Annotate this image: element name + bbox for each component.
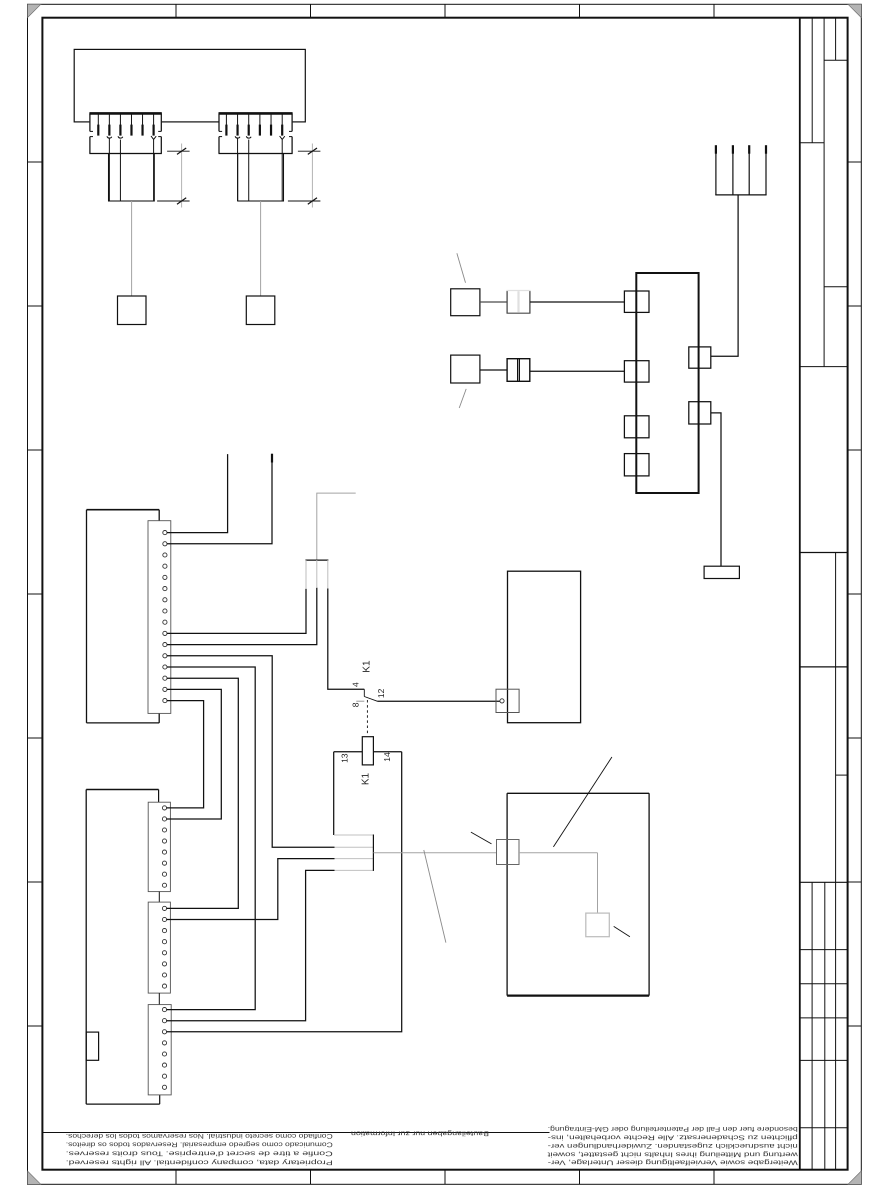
title block column line v6 bottom [824,882,826,1169]
splice block X2 [246,296,274,325]
terminal strip X10 (16 pins) [148,521,171,714]
notes area top border [42,1132,549,1134]
terminal strip X11.C (8 pins) [148,902,170,993]
title block divider h 1128 [800,1127,848,1129]
wire screen to contact K1 [328,589,365,690]
wire A2 stub up [167,454,272,544]
cable sleeve X1 [109,154,155,202]
svg-text:Comunicado como segredo empres: Comunicado como segredo empresarial. Res… [66,1141,333,1148]
wire D2 to cable bundle [166,870,334,1020]
bundle gray wire 3 [335,858,374,860]
wire coil 13 down [333,752,335,835]
earth bar terminal [704,566,739,578]
title block divider h 1018 [800,1017,848,1019]
corner triangle top-right [848,4,861,17]
component outline box top [74,49,305,122]
sensor B2 box [451,355,480,383]
screen drop gray 1 [305,560,307,589]
corner triangle bottom-right [848,1171,861,1184]
dimension lines at X1 [157,144,190,208]
title block column line v5 bottom [811,882,813,1169]
control unit block A1 [636,273,698,493]
frame ticks left edge [28,162,43,1026]
wire A16 to B1 [166,701,203,808]
wire X5 to block terminal [711,195,738,356]
title block left boundary [799,18,801,1170]
bundle bar [372,835,374,871]
housing X11 side tab [86,1032,98,1060]
cable sleeve X2 [238,154,284,202]
title block column line v2 [823,18,825,367]
svg-text:Bauteilangaben nur zur Informa: Bauteilangaben nur zur Information [351,1130,489,1137]
gray leader near bundle [424,850,446,943]
sensor B1 box [451,289,480,316]
long gray wire bundle to valve box [373,852,496,854]
connector plug X2 (right, 6 pins) [219,112,293,201]
title block divider h 143 [800,142,824,144]
terminal strip X11.D (8 pins) [148,1005,171,1095]
wire contact 12 to module pin [377,700,500,702]
title block divider h 667 [800,666,848,668]
pin circle on A2 terminal [500,699,504,703]
relay contact K1 pivot stub [363,689,365,696]
strip C-D link [158,993,160,1005]
terminal strip X11.B (8 pins) [148,802,170,891]
terminal 5 on A1 right [689,347,711,368]
title block divider h 287 [824,286,848,288]
svg-text:Weitergabe sowie Vervielfaelti: Weitergabe sowie Vervielfaeltigung diese… [548,1159,798,1166]
terminal 4 on A1 [624,454,649,476]
svg-text:K1: K1 [362,660,373,673]
terminal 6 on A1 right [689,402,711,424]
coil box top edge left [334,751,363,753]
terminal 2 on A1 [624,361,649,382]
svg-text:Confiado como secreto industri: Confiado como secreto industrial. Nos re… [66,1132,333,1139]
title block divider h 775 [836,774,848,776]
relay contact K1 throw 8 stub [356,700,364,702]
connector housing X11 outer [86,790,160,1105]
terminal strip X10 pins [163,531,167,703]
title block divider h 984 [800,983,848,985]
wire (screen drain X1 to splice) [131,201,133,296]
title block divider h 552 [800,552,848,554]
wire A12 to cable bundle [167,656,335,847]
bundle gray wire 4 [335,869,374,871]
svg-text:pflichten zu Schadenersatz. Al: pflichten zu Schadenersatz. Alle Rechte … [548,1134,798,1141]
svg-text:nicht ausdruecklich zugestande: nicht ausdruecklich zugestanden. Zuwider… [548,1142,798,1149]
bundle gray wire 2 [335,846,374,848]
inline filter F2 [507,359,530,382]
gray wire through A3 [519,852,598,854]
title block divider h 1060 [800,1059,848,1061]
terminal 3 on A1 [624,416,649,438]
wire D3 to relay coil 14 [166,752,401,1032]
gray wire down to solenoid [597,853,599,913]
inline filter F2 center lines [517,359,519,382]
terminal on A2 [496,689,519,712]
svg-text:wertung und Mitteilung ihres I: wertung und Mitteilung ihres Inhalts nic… [548,1150,800,1157]
svg-text:K1: K1 [361,772,372,785]
svg-text:8: 8 [350,702,360,707]
wire terminal6 to earth bar [711,413,721,566]
svg-text:Proprietary data, company conf: Proprietary data, company confidential. … [66,1158,333,1165]
leader line at sensor B2 [459,389,466,408]
svg-text:14: 14 [382,752,392,762]
device box A2 [508,571,581,723]
long leader line at A3 [553,757,612,847]
dimension lines at X2 [288,144,321,208]
title block divider h 882 [800,881,848,883]
wire A1 stub up [167,454,228,532]
screen feed wire (gray) [317,493,356,560]
corner triangle top-left [28,4,41,17]
wire filter F2 to terminal 2 [530,370,624,372]
wire A14 to C1 [166,678,238,908]
leader at solenoid [614,926,630,936]
title block column line v1 top [811,18,813,143]
leader to A3 terminal [471,832,492,844]
connector X5 (4 pins) [715,145,766,195]
title block divider h 367 [800,366,848,368]
bundle gray wire 1 [334,834,373,836]
coil box top edge right [373,751,401,753]
contact-coil mechanical link (dashed) [366,700,368,736]
wire A15 to B2 [166,689,221,819]
relay contact K1 blade [364,697,377,702]
inline filter F1 (faded top) [507,291,531,314]
notes text german block (rotated 180) [548,1125,800,1166]
wire A11 to screen bar [167,588,317,645]
frame ticks top edge [176,4,714,17]
terminal on A3 left edge [497,840,520,865]
relay coil K1 [362,737,373,765]
wire filter F1 to terminal 1 [530,301,624,303]
wire (screen drain X2 to splice) [260,201,262,296]
strip B-C link [158,892,160,903]
frame ticks right edge [848,162,862,1026]
svg-text:besondere fuer den Fall der Pa: besondere fuer den Fall der Patenterteil… [548,1125,798,1132]
title block divider h 950 [800,949,848,951]
strips B C D pins [162,806,166,1090]
title block column line v3 top [835,18,837,61]
connector housing X10 outer [87,510,160,723]
wire A10 to screen bar [167,589,306,634]
title block column line v4 mid [835,553,837,1170]
splice block X1 [118,296,147,325]
terminal 1 on A1 [624,291,649,312]
svg-text:Confie a titre de secret d’ent: Confie a titre de secret d’entreprise. T… [66,1150,333,1157]
corner triangle bottom-left [28,1171,41,1184]
valve unit box A3 [507,793,649,995]
leader line at sensor B1 [457,253,466,282]
wire C2 to cable bundle [166,859,334,920]
title block divider h 60 [824,59,848,61]
pin tip at A2 stub [271,454,273,463]
screen bar [305,559,328,561]
connector plug X1 (left, 6 pins) [89,112,161,201]
wire sensor B2 to filter F2 [480,369,507,371]
solenoid square in A3 [586,913,610,937]
notes text english block (rotated 180) [66,1132,333,1166]
screen drop gray 3 [327,560,329,588]
svg-text:13: 13 [340,753,350,763]
frame ticks bottom edge [176,1170,714,1185]
wire sensor B1 to filter [480,301,507,303]
wire A13 to D1 [166,667,255,1010]
svg-text:12: 12 [376,688,386,698]
svg-text:4: 4 [350,682,360,687]
screen drop gray 2 [316,560,318,588]
